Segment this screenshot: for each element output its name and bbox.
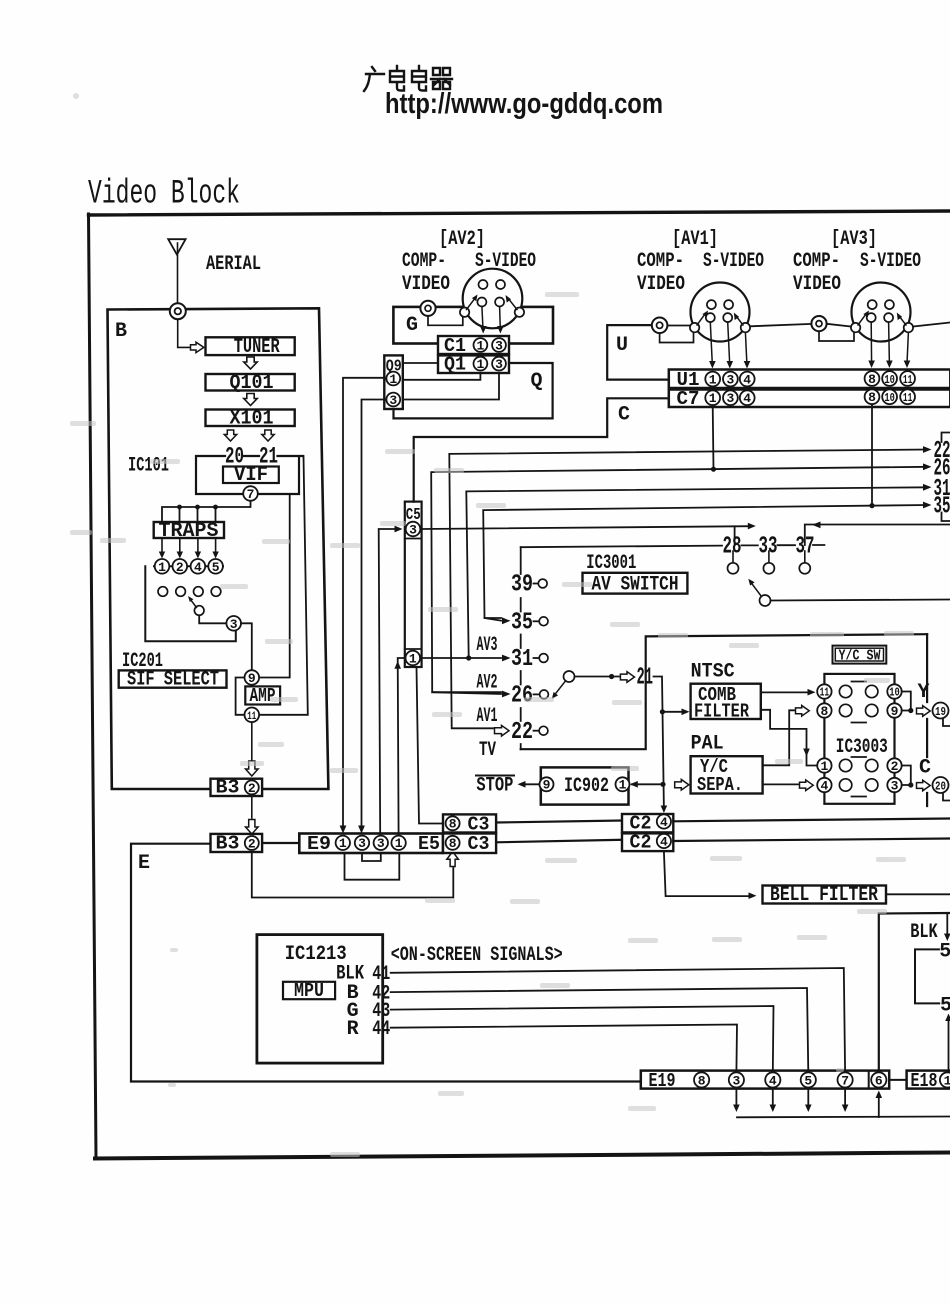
svg-text:Y/C SW: Y/C SW bbox=[839, 648, 881, 665]
E19 pin 3 bbox=[729, 1072, 744, 1087]
BLK drop arrow bbox=[946, 915, 948, 937]
U1 pin 10 bbox=[882, 371, 897, 386]
svg-text:COMP-: COMP- bbox=[637, 250, 684, 273]
svg-text:FILTER: FILTER bbox=[694, 701, 749, 723]
svg-text:VIDEO: VIDEO bbox=[793, 273, 841, 296]
IC902 box bbox=[541, 767, 629, 804]
block AMP bbox=[245, 686, 280, 704]
svg-text:3: 3 bbox=[495, 338, 503, 353]
svg-text:IC3001: IC3001 bbox=[586, 552, 636, 575]
wire from right sheet to pin37 bbox=[805, 525, 950, 546]
wire 43 to E19-4 bbox=[391, 1006, 774, 1072]
arrow Q101 to X101 bbox=[244, 394, 257, 406]
svg-text:B: B bbox=[115, 320, 127, 343]
svg-text:S-VIDEO: S-VIDEO bbox=[860, 250, 921, 273]
IC3003 pin 4 bbox=[817, 778, 831, 792]
block TUNER bbox=[206, 337, 295, 355]
row35 off-page bus bbox=[483, 505, 928, 618]
svg-text:E19: E19 bbox=[649, 1070, 676, 1092]
scan noise smudges (decorative) bbox=[70, 93, 914, 1157]
svg-text:X101: X101 bbox=[230, 408, 274, 431]
svg-text:26: 26 bbox=[511, 683, 533, 710]
wire C5-1 down to C3-8 upper bbox=[417, 667, 444, 824]
connector B3 upper bbox=[211, 779, 263, 796]
AV1 comp video jack bbox=[652, 318, 668, 334]
svg-text:11: 11 bbox=[903, 373, 913, 387]
wire C3 upper to C2 upper bbox=[496, 821, 622, 823]
antenna bbox=[168, 239, 185, 254]
svg-text:9: 9 bbox=[891, 704, 899, 719]
svg-text:9: 9 bbox=[248, 671, 256, 686]
connector Q1 bbox=[438, 355, 509, 373]
arrow TUNER to Q101 bbox=[244, 357, 257, 369]
U1 pin 3 bbox=[723, 372, 738, 387]
connector C2 lower bbox=[622, 833, 673, 851]
pin 19 circle bbox=[933, 703, 949, 719]
svg-text:2: 2 bbox=[248, 781, 256, 796]
arrows TRAPS to pins 1 2 4 5 bbox=[162, 538, 216, 555]
bus Q9-3 to E9-3 bbox=[362, 400, 387, 829]
wire 44 to E19-3 bbox=[391, 1025, 737, 1073]
svg-text:TRAPS: TRAPS bbox=[159, 520, 219, 543]
connector C2 upper bbox=[622, 814, 673, 832]
U1 pin 1 bbox=[705, 372, 720, 387]
svg-text:3: 3 bbox=[726, 391, 734, 406]
bracket joining pins 1-1 bbox=[345, 853, 400, 880]
svg-text:44: 44 bbox=[372, 1018, 390, 1041]
return wire into E19-6 bbox=[737, 1116, 950, 1119]
wire pin3 to pin9 bbox=[241, 623, 252, 670]
svg-text:1: 1 bbox=[709, 391, 717, 406]
E9 pin 1a bbox=[336, 836, 350, 850]
svg-text:C: C bbox=[618, 404, 630, 427]
bracket under 19 bbox=[943, 720, 950, 727]
wire C7-1 down to row26 bbox=[712, 405, 715, 469]
svg-text:10: 10 bbox=[884, 391, 895, 405]
svg-text:U: U bbox=[616, 334, 628, 357]
C7 pin 8 bbox=[865, 389, 880, 404]
svg-text:G: G bbox=[406, 314, 418, 337]
IC3003 pin 9 bbox=[887, 703, 901, 717]
wire E left down to E19 bbox=[131, 844, 641, 1082]
IC3003 pin 8 bbox=[817, 703, 831, 717]
connector E18 bbox=[907, 1071, 950, 1089]
row22 off-page bus bbox=[449, 450, 928, 729]
svg-text:1: 1 bbox=[409, 652, 417, 667]
svg-text:C3: C3 bbox=[468, 833, 490, 855]
wire comb filter to IC3003-11 bbox=[761, 691, 811, 693]
wire B3-2 to C3-8 below bbox=[252, 852, 453, 898]
switch commutator arm bbox=[760, 595, 771, 606]
pin 4 bbox=[191, 559, 206, 574]
wire AV1 lug to AV3 jack bbox=[750, 324, 811, 326]
hollow arrow to 21 bbox=[620, 672, 634, 683]
svg-text:COMP-: COMP- bbox=[402, 250, 446, 273]
svg-text:Q1: Q1 bbox=[444, 354, 466, 376]
pin 20 circle bbox=[933, 777, 949, 793]
IC3003 pin 10 bbox=[887, 684, 901, 698]
E9 pin 3a bbox=[355, 836, 369, 850]
svg-text:AMP: AMP bbox=[250, 685, 276, 707]
svg-text:VIF: VIF bbox=[234, 464, 268, 487]
svg-text:PAL: PAL bbox=[691, 733, 724, 756]
off-page bracket top bbox=[942, 433, 950, 443]
svg-text:SIF SELECT: SIF SELECT bbox=[127, 669, 219, 692]
svg-text:5: 5 bbox=[804, 1073, 812, 1088]
svg-text:Y: Y bbox=[918, 681, 930, 704]
IC902 pin 1 bbox=[616, 777, 630, 791]
pin 1 bbox=[155, 559, 170, 574]
wire Y/C sepa to IC3003-8 bbox=[763, 710, 794, 765]
AV3 bracket jack to lug bbox=[819, 331, 854, 341]
header CJK logo 广电电器 bbox=[364, 66, 452, 91]
svg-text:8: 8 bbox=[868, 372, 876, 387]
block B box bbox=[108, 308, 329, 789]
amp bracket left bbox=[236, 678, 245, 715]
wire 42 to E19-5 bbox=[391, 988, 809, 1072]
block MPU bbox=[283, 982, 335, 999]
IC3003 inner contacts bbox=[839, 685, 878, 791]
arrow IC902-9 to STOP bbox=[521, 783, 539, 785]
block BELL FILTER bbox=[763, 886, 887, 904]
U1 pin 11 bbox=[900, 371, 915, 386]
block Q101 bbox=[206, 374, 295, 391]
block COMB FILTER bbox=[691, 684, 761, 719]
bracket joining 5-5 bbox=[915, 949, 939, 1003]
node Q bracket bbox=[394, 363, 553, 418]
bus E9-3b up to C5-3 bbox=[379, 529, 396, 836]
svg-text:AV SWITCH: AV SWITCH bbox=[592, 574, 679, 597]
svg-text:5: 5 bbox=[212, 560, 220, 575]
bracket joining pins 3-3 bbox=[362, 853, 381, 861]
C5 pin 1 bbox=[406, 651, 421, 666]
svg-text:VIDEO: VIDEO bbox=[402, 273, 450, 296]
IC3003 pin 11 bbox=[817, 684, 831, 698]
svg-text:AV1: AV1 bbox=[477, 705, 498, 728]
wire C2 lower off-page bbox=[673, 839, 950, 842]
wire Q1-3 to Q9-3 bbox=[400, 373, 499, 400]
AV1 bracket jack to lug bbox=[660, 332, 694, 342]
svg-text:3: 3 bbox=[409, 523, 417, 538]
svg-text:6: 6 bbox=[875, 1073, 883, 1088]
E19 pin 5 bbox=[801, 1072, 816, 1087]
outer frame border bbox=[89, 211, 950, 215]
switch wiper arm arrow bbox=[555, 682, 566, 696]
connector C3 lower bbox=[443, 834, 496, 854]
svg-text:AV2: AV2 bbox=[477, 672, 498, 695]
E19 pin 4 bbox=[765, 1072, 780, 1087]
branch arrow to comb filter bbox=[660, 709, 665, 714]
wire C5-3 out to pin28 bbox=[422, 526, 751, 529]
hollow arrow to Y/C sepa bbox=[675, 780, 689, 791]
wire B3 to E9 bbox=[262, 842, 299, 844]
svg-text:TV: TV bbox=[479, 739, 496, 762]
svg-text:Q: Q bbox=[531, 370, 543, 393]
AV3 lug arrows bbox=[858, 314, 866, 325]
svg-text:1: 1 bbox=[944, 1073, 950, 1088]
svg-text:E5: E5 bbox=[418, 833, 440, 855]
svg-text:C: C bbox=[919, 757, 931, 780]
wire antenna to tuner bbox=[178, 319, 190, 347]
svg-text:IC101: IC101 bbox=[128, 455, 169, 478]
svg-text:COMP-: COMP- bbox=[793, 250, 840, 273]
STOP label with overline bbox=[476, 775, 514, 777]
svg-text:1: 1 bbox=[820, 759, 828, 774]
IC902 pin 9 bbox=[540, 777, 554, 791]
AV2 DIN lugs bbox=[460, 308, 469, 317]
svg-text:4: 4 bbox=[820, 778, 828, 793]
C7 pin 3 bbox=[723, 390, 738, 405]
svg-text:3: 3 bbox=[389, 393, 397, 408]
arrow into TUNER bbox=[191, 342, 204, 352]
wire pin11 right to pin21 bbox=[259, 456, 308, 715]
AV3 S-video DIN shell bbox=[852, 283, 911, 342]
filter select enclosure bbox=[145, 566, 236, 641]
pin 9 bbox=[245, 670, 260, 685]
wire Q9 top to Q1 box bbox=[403, 362, 438, 364]
E19 pin 8 bbox=[694, 1072, 709, 1087]
row31 wire to pin31 bbox=[422, 657, 501, 659]
svg-text:4: 4 bbox=[743, 391, 751, 406]
wire pin9 right to IC101 bbox=[259, 494, 290, 678]
node G box bbox=[393, 307, 553, 344]
svg-text:TUNER: TUNER bbox=[234, 336, 280, 359]
pin 3 bbox=[226, 616, 241, 631]
wire C3 lower to C2 lower bbox=[496, 840, 622, 843]
wire AV3 lug off-page right bbox=[913, 323, 950, 327]
svg-text:IC3003: IC3003 bbox=[836, 736, 888, 759]
AV1 DIN pins bbox=[706, 300, 733, 322]
wire E18-6 net top bbox=[879, 913, 950, 1071]
svg-text:3: 3 bbox=[726, 372, 734, 387]
arrow X101 pin20 bbox=[224, 430, 236, 441]
svg-text:[AV1]: [AV1] bbox=[672, 228, 718, 251]
wire wiper to node 21 bbox=[575, 676, 620, 678]
svg-text:3: 3 bbox=[495, 357, 503, 372]
svg-text:1: 1 bbox=[709, 372, 717, 387]
pin 5 bbox=[208, 559, 223, 574]
AV3 DIN pins bbox=[867, 300, 894, 322]
svg-text:STOP: STOP bbox=[476, 775, 513, 798]
aerial jack circle bbox=[170, 303, 186, 319]
svg-text:8: 8 bbox=[449, 836, 457, 851]
IC3003 switch dashes bbox=[852, 682, 867, 797]
wire arm off-page right bbox=[771, 600, 950, 601]
block TRAPS bbox=[154, 522, 224, 538]
E9 pin 3b bbox=[374, 836, 388, 850]
E9 pin 1b bbox=[391, 836, 405, 850]
svg-text:4: 4 bbox=[660, 815, 668, 830]
svg-text:IC902: IC902 bbox=[564, 775, 609, 798]
svg-text:2: 2 bbox=[891, 759, 899, 774]
wire Y/C sepa to IC3003-4 bbox=[763, 783, 798, 785]
wire selector to pin3 bbox=[199, 615, 226, 623]
connector Q9 bbox=[384, 355, 403, 409]
IC1213 box bbox=[257, 935, 383, 1064]
C7 pin 4 bbox=[740, 390, 755, 405]
svg-text:E18: E18 bbox=[911, 1070, 938, 1092]
AV2 pin drops to C1 bbox=[482, 307, 483, 330]
arrow X101 pin21 bbox=[262, 430, 274, 441]
svg-text:1: 1 bbox=[389, 372, 397, 387]
bus Q9-1 to E9-1 bbox=[343, 378, 386, 828]
svg-text:<ON-SCREEN SIGNALS>: <ON-SCREEN SIGNALS> bbox=[391, 944, 563, 967]
hollow arrow up into C3 bbox=[447, 852, 459, 867]
IC3001 outline with pins 28 33 37 bbox=[521, 545, 825, 547]
pin 11 bbox=[245, 708, 260, 723]
pin 7 of VIF bbox=[243, 486, 258, 501]
AV3 comp video jack bbox=[811, 316, 826, 331]
connector C7 row bbox=[669, 390, 950, 408]
hollow arrow into B3 lower bbox=[246, 820, 259, 835]
connector E19 bbox=[641, 1071, 889, 1089]
E19 pin 6 bbox=[871, 1072, 886, 1087]
svg-text:E9: E9 bbox=[307, 833, 331, 855]
AV1 lug arrows bbox=[697, 314, 705, 325]
row26 off-page bus bbox=[431, 467, 928, 692]
svg-text:10: 10 bbox=[884, 373, 895, 387]
C5 pin 3 bbox=[406, 522, 421, 537]
svg-text:1: 1 bbox=[339, 836, 347, 851]
block Y/C SEPA bbox=[691, 756, 763, 793]
U1 pin 8 bbox=[865, 371, 880, 386]
E19 output drops with arrows bbox=[736, 1089, 845, 1108]
svg-text:[AV3]: [AV3] bbox=[831, 228, 877, 251]
svg-text:8: 8 bbox=[698, 1073, 706, 1088]
IC3003 box bbox=[824, 674, 894, 804]
svg-text:BELL FILTER: BELL FILTER bbox=[770, 884, 878, 907]
svg-text:1: 1 bbox=[619, 778, 627, 793]
pin 2 bbox=[173, 559, 188, 574]
block X101 bbox=[206, 410, 295, 427]
wire Q1-1 to Q9-1 bbox=[400, 373, 480, 380]
svg-text:22: 22 bbox=[511, 719, 533, 746]
connector C5 strip bbox=[405, 502, 422, 667]
svg-text:B3: B3 bbox=[216, 833, 240, 855]
svg-text:31: 31 bbox=[511, 646, 533, 673]
svg-text:1: 1 bbox=[476, 338, 484, 353]
selector arrow bbox=[191, 600, 197, 608]
AV3 drops to U1 pins 8 10 11 bbox=[870, 322, 872, 364]
wire bell filter off-page bbox=[886, 893, 950, 895]
svg-text:1: 1 bbox=[395, 836, 403, 851]
C output net bbox=[902, 766, 911, 786]
junction dots on traps rail bbox=[177, 505, 218, 510]
svg-text:3: 3 bbox=[377, 836, 385, 851]
Y output net bbox=[902, 692, 911, 711]
svg-text:9: 9 bbox=[543, 778, 551, 793]
svg-text:[AV2]: [AV2] bbox=[439, 228, 485, 251]
svg-text:8: 8 bbox=[868, 390, 876, 405]
C7 pin 1 bbox=[705, 390, 720, 405]
svg-text:4: 4 bbox=[743, 372, 751, 387]
C7 pin 11 bbox=[900, 389, 915, 404]
connector E9 E5 row box bbox=[299, 834, 443, 854]
svg-text:Q101: Q101 bbox=[230, 372, 274, 395]
C7 pin 10 bbox=[882, 389, 897, 404]
svg-text:33: 33 bbox=[759, 534, 778, 561]
AV1 S-video DIN shell bbox=[691, 283, 750, 342]
svg-text:Video Block: Video Block bbox=[88, 176, 240, 214]
IC3003 pin 3 bbox=[887, 778, 901, 792]
wire 21 down to C2 bbox=[654, 677, 664, 810]
svg-text:1: 1 bbox=[158, 560, 166, 575]
wire jack to lug bbox=[827, 324, 851, 327]
svg-text:BLK: BLK bbox=[910, 921, 938, 944]
svg-text:3: 3 bbox=[358, 836, 366, 851]
svg-text:3: 3 bbox=[732, 1073, 740, 1088]
svg-text:10: 10 bbox=[889, 686, 900, 700]
svg-text:VIDEO: VIDEO bbox=[637, 273, 685, 296]
svg-text:11: 11 bbox=[820, 686, 830, 700]
AV1 DIN lugs bbox=[690, 323, 699, 332]
switch wiper contact bbox=[564, 671, 575, 682]
connector U1 row bbox=[669, 370, 950, 389]
svg-text:SEPA.: SEPA. bbox=[697, 774, 743, 796]
svg-text:11: 11 bbox=[247, 711, 256, 723]
E19 pin 7 bbox=[838, 1072, 853, 1087]
svg-text:20: 20 bbox=[935, 779, 946, 793]
bus E9-1b up to pin31 row bbox=[398, 658, 406, 836]
wire pin11 down bbox=[251, 722, 253, 760]
bracket jack to lug bbox=[428, 316, 463, 325]
AV2 lug arrows bbox=[467, 300, 475, 310]
svg-text:B3: B3 bbox=[216, 777, 240, 799]
AV3 DIN lugs bbox=[851, 323, 860, 332]
traps rail drops bbox=[180, 507, 216, 522]
U1 pin 4 bbox=[740, 372, 755, 387]
C bus bbox=[414, 398, 669, 501]
svg-text:http://www.go-gddq.com: http://www.go-gddq.com bbox=[385, 88, 663, 120]
wire C2 upper off-page bbox=[673, 819, 950, 822]
svg-text:NTSC: NTSC bbox=[691, 661, 735, 684]
row31 off-page bus bbox=[466, 487, 928, 658]
svg-text:2: 2 bbox=[248, 836, 256, 851]
block Y/C SW double box bbox=[833, 646, 887, 664]
connector B3 lower bbox=[211, 834, 263, 852]
bracket under 20 bbox=[943, 794, 950, 801]
svg-text:AV3: AV3 bbox=[477, 634, 498, 657]
AV2 S-video DIN shell bbox=[463, 269, 523, 329]
block VIF bbox=[223, 467, 279, 484]
connector C3 upper bbox=[443, 814, 496, 832]
svg-text:28: 28 bbox=[723, 534, 742, 561]
wire E19 to E18 bbox=[889, 1079, 906, 1081]
U bus bbox=[607, 325, 670, 380]
svg-text:8: 8 bbox=[449, 817, 457, 832]
svg-text:19: 19 bbox=[935, 705, 946, 719]
svg-text:39: 39 bbox=[511, 572, 533, 599]
svg-text:S-VIDEO: S-VIDEO bbox=[703, 250, 764, 273]
AV2 DIN pins bbox=[477, 280, 505, 307]
off-page bracket bottom bbox=[942, 513, 950, 522]
svg-text:11: 11 bbox=[903, 391, 913, 405]
arrow E18-1 up bbox=[948, 1017, 950, 1071]
hollow arrow into B3 bbox=[246, 761, 259, 776]
svg-text:AERIAL: AERIAL bbox=[206, 253, 261, 276]
selector contact circle bbox=[194, 606, 204, 616]
wire C2-4 to bell filter bbox=[664, 851, 752, 896]
wire VIF pin7 to traps rail bbox=[162, 501, 251, 522]
IC3003 pin 1 bbox=[817, 758, 831, 772]
wire B3 to B3 bbox=[251, 796, 253, 818]
block AV SWITCH bbox=[583, 573, 688, 594]
connector C1 bbox=[438, 336, 509, 354]
svg-text:1: 1 bbox=[476, 357, 484, 372]
svg-text:4: 4 bbox=[660, 834, 668, 849]
svg-text:3: 3 bbox=[230, 617, 238, 632]
svg-text:4: 4 bbox=[194, 560, 202, 575]
